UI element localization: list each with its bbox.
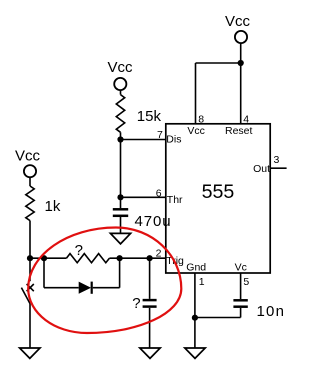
wire node to pin 7 Dis [121, 139, 166, 141]
wire node down to threshold node [120, 140, 122, 198]
svg-text:3: 3 [274, 154, 280, 166]
wire diode branch bottom right [93, 287, 120, 289]
wire trigger net right segment [109, 257, 165, 259]
node junction ground net [192, 315, 198, 321]
wire horizontal Vcc node to pin 8 branch [196, 62, 241, 64]
node junction cap branch [147, 255, 153, 261]
svg-text:4: 4 [243, 113, 249, 125]
svg-text:Out: Out [253, 163, 270, 175]
wire 1k to trigger node [29, 221, 31, 259]
svg-text:?: ? [132, 295, 140, 312]
power symbol Vcc above 15k resistor [108, 59, 134, 90]
svg-text:Vcc: Vcc [108, 59, 134, 76]
svg-text:15k: 15k [137, 108, 162, 125]
power symbol Vcc top right [225, 13, 251, 43]
pin 3 stub wire [270, 167, 286, 169]
svg-text:Vcc: Vcc [187, 125, 205, 137]
wire pin 1 Gnd down [194, 273, 196, 348]
svg-text:Reset: Reset [225, 125, 253, 137]
node junction discharge net [117, 136, 123, 142]
svg-text:Vc: Vc [235, 261, 247, 273]
node junction trigger net left [27, 255, 33, 261]
svg-text:Vcc: Vcc [15, 147, 41, 164]
resistor ? horizontal [66, 242, 109, 263]
capacitor 10n [233, 300, 285, 320]
svg-text:1k: 1k [45, 198, 61, 215]
node junction Vcc net [238, 60, 244, 66]
switch S1 [21, 258, 33, 303]
wire diode branch bottom left [44, 287, 79, 289]
capacitor 470u [113, 197, 172, 233]
wire pin 5 Vc down [240, 273, 242, 299]
node junction diode branch right [117, 255, 123, 261]
wire resistor 15k to node [120, 132, 122, 139]
node junction diode branch left [41, 255, 47, 261]
svg-text:1: 1 [199, 276, 205, 288]
wire Vcc circle to 1k [29, 177, 31, 186]
wire 10n cap to ground node [195, 317, 241, 319]
wire trigger net left segment [30, 257, 66, 259]
IC U1 555 timer body [166, 124, 270, 273]
capacitor ? trigger [132, 258, 156, 312]
node junction threshold net [117, 194, 123, 200]
diode D1 [79, 282, 92, 294]
ground below 470u [110, 233, 130, 244]
wire diode branch left vertical [43, 258, 45, 288]
ground below switch [20, 348, 40, 358]
wire node to pin 6 Thr [121, 196, 166, 198]
resistor 1k [26, 186, 61, 221]
svg-text:5: 5 [243, 276, 249, 288]
wire diode branch right vertical [119, 258, 121, 288]
wire Vcc circle to resistor [120, 90, 122, 95]
svg-text:470u: 470u [135, 213, 172, 230]
svg-text:555: 555 [202, 181, 235, 203]
wire trigger cap to ground [149, 308, 151, 348]
wire from Vcc circle down to node [240, 43, 242, 63]
svg-text:Gnd: Gnd [186, 261, 206, 273]
power symbol Vcc left [15, 147, 41, 177]
wire pin 8 vertical [195, 63, 197, 124]
svg-text:10n: 10n [257, 303, 286, 320]
ground below trigger cap [140, 348, 160, 358]
annotation ellipse red [28, 228, 181, 334]
svg-text:Thr: Thr [167, 194, 183, 206]
wire switch to ground [29, 304, 31, 348]
resistor 15k [116, 95, 161, 133]
wire pin 4 vertical [240, 63, 242, 124]
svg-text:?: ? [75, 242, 83, 259]
svg-text:Vcc: Vcc [225, 13, 251, 30]
svg-text:Dis: Dis [166, 134, 181, 146]
svg-text:8: 8 [198, 113, 204, 125]
ground below pin 1 [185, 348, 205, 358]
